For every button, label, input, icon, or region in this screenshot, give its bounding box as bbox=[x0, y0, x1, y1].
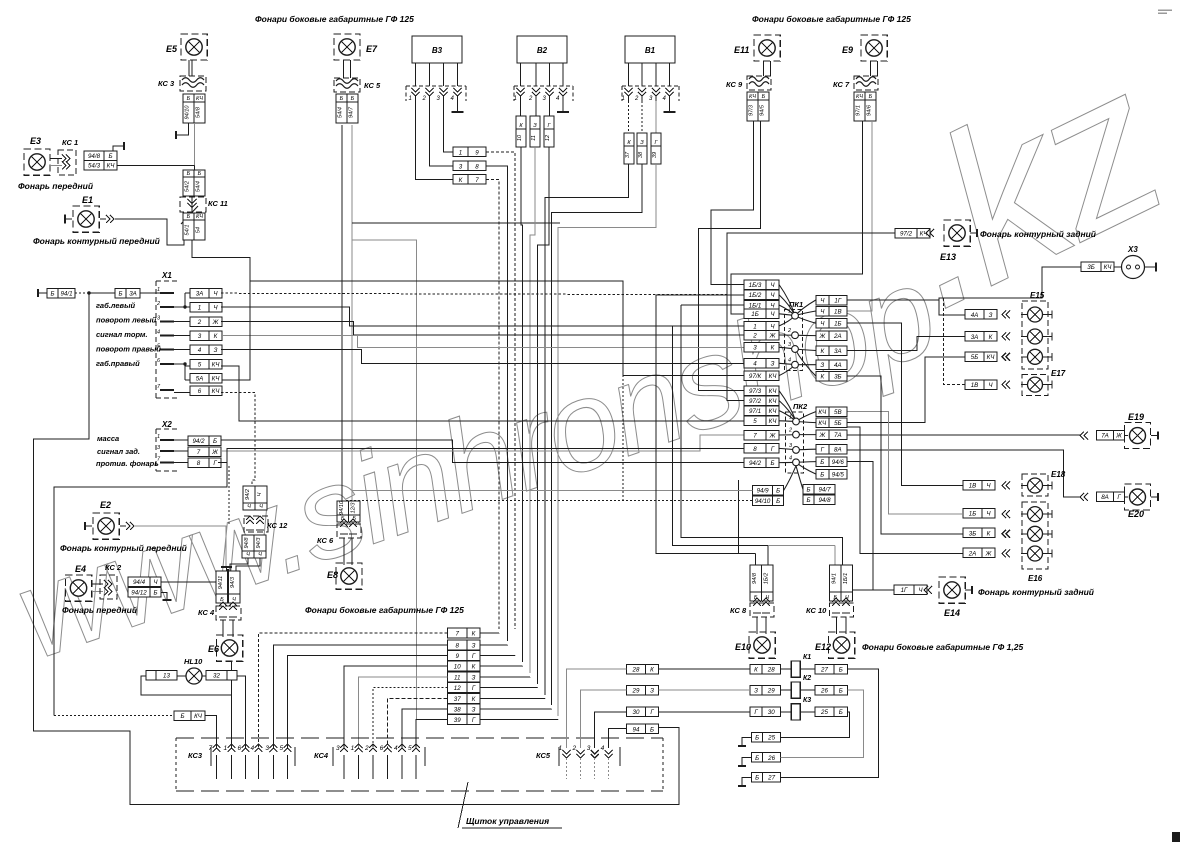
svg-text:КС 1: КС 1 bbox=[62, 138, 78, 147]
PS2 box 97/2 КЧ bbox=[744, 396, 779, 406]
svg-text:94/2: 94/2 bbox=[245, 488, 251, 500]
KC3 pin 3 bbox=[269, 744, 277, 752]
svg-text:К: К bbox=[214, 333, 218, 340]
wire 2А row feed bbox=[847, 427, 963, 554]
svg-text:Фонарь контурный задний: Фонарь контурный задний bbox=[978, 587, 1095, 597]
X1 pin7 link bbox=[174, 391, 190, 393]
svg-text:КЧ: КЧ bbox=[769, 373, 778, 380]
svg-text:E19: E19 bbox=[1128, 412, 1144, 422]
wire to X1 pin1 bbox=[140, 292, 160, 294]
B2 pin 1 bbox=[517, 88, 525, 96]
relay K1 bbox=[791, 661, 800, 677]
svg-text:94/3: 94/3 bbox=[230, 576, 236, 588]
box 28 К bbox=[627, 665, 659, 675]
PS1 box 2 Ж bbox=[744, 330, 779, 340]
svg-text:1Б: 1Б bbox=[751, 311, 758, 318]
terminal right of E13 bbox=[970, 232, 977, 234]
svg-text:1Г: 1Г bbox=[834, 297, 841, 304]
box 1 Ч bbox=[190, 303, 222, 313]
svg-text:Фонари боковые габаритные ГФ 1: Фонари боковые габаритные ГФ 1,25 bbox=[862, 642, 1023, 652]
svg-text:94/5: 94/5 bbox=[760, 104, 766, 116]
wire E14 feed from 94/6 bbox=[847, 462, 894, 590]
box Б 3А bbox=[115, 289, 140, 299]
connector KC 8 bbox=[750, 603, 774, 617]
wire stack 12 left to pin bbox=[373, 688, 448, 749]
wires row K1 bbox=[659, 668, 751, 670]
wire bus габ.левый row bbox=[221, 293, 744, 295]
wire 29 to KC5 pin2 bbox=[581, 690, 627, 748]
svg-text:К: К bbox=[771, 345, 775, 352]
svg-text:E2: E2 bbox=[100, 500, 111, 510]
box Б 25 bbox=[752, 733, 781, 743]
PS1 box 1Б/2 Ч bbox=[744, 290, 779, 300]
svg-text:Ч: Ч bbox=[258, 552, 262, 558]
corner mark bottom right bbox=[1172, 832, 1180, 842]
svg-text:32: 32 bbox=[213, 673, 220, 680]
wire E11 B to PS2 bbox=[699, 121, 761, 391]
svg-text:КЧ: КЧ bbox=[769, 398, 778, 405]
svg-text:39: 39 bbox=[652, 152, 658, 158]
svg-text:Б: Б bbox=[755, 755, 759, 762]
svg-text:1В: 1В bbox=[969, 483, 977, 490]
svg-text:КС 4: КС 4 bbox=[198, 608, 215, 617]
svg-text:3: 3 bbox=[459, 163, 463, 170]
KC5 pin 3 bbox=[591, 750, 599, 758]
svg-text:3: 3 bbox=[336, 745, 340, 752]
svg-text:E14: E14 bbox=[944, 608, 960, 618]
wires KC6 to E8 bbox=[343, 538, 345, 565]
svg-text:1Б: 1Б bbox=[969, 511, 976, 518]
B1 leads bbox=[628, 63, 630, 86]
svg-text:КЧ: КЧ bbox=[194, 713, 203, 720]
box 3Б К bbox=[963, 528, 995, 538]
block 94/10 12/3 (KC6) bbox=[337, 501, 349, 522]
svg-text:КС 2: КС 2 bbox=[105, 563, 122, 572]
svg-text:94/1: 94/1 bbox=[831, 573, 837, 584]
svg-text:4: 4 bbox=[198, 347, 202, 354]
svg-text:1Б/1: 1Б/1 bbox=[843, 573, 849, 584]
svg-text:Б: Б bbox=[108, 153, 112, 160]
svg-text:масса: масса bbox=[97, 434, 119, 443]
svg-text:3А: 3А bbox=[196, 291, 204, 298]
svg-text:8А: 8А bbox=[834, 447, 842, 454]
wires E3 to KC1 bbox=[50, 158, 62, 160]
arrows E20 bbox=[1080, 493, 1088, 501]
stack box 10 К bbox=[448, 661, 481, 671]
svg-text:Фонарь контурный передний: Фонарь контурный передний bbox=[60, 543, 188, 553]
PS2 right box Г 8А bbox=[816, 444, 847, 454]
block 97/3 94/5 bbox=[747, 92, 758, 121]
svg-text:З: З bbox=[650, 687, 654, 694]
KC3 pin 4 bbox=[255, 744, 263, 752]
svg-text:4: 4 bbox=[251, 745, 255, 752]
block 94/8 1Б/2 (KC8) bbox=[750, 565, 762, 601]
ground Б26 bbox=[742, 757, 752, 766]
svg-text:4А: 4А bbox=[834, 362, 842, 369]
KC5 pin 1 bbox=[563, 750, 571, 758]
stack box 37 К bbox=[448, 694, 481, 704]
svg-text:З: З bbox=[472, 707, 476, 714]
svg-text:2: 2 bbox=[422, 96, 427, 102]
wire E9 B bbox=[847, 121, 872, 311]
stack box 8 З bbox=[448, 640, 481, 650]
svg-text:38: 38 bbox=[454, 707, 461, 714]
svg-text:В2: В2 bbox=[537, 46, 548, 55]
svg-text:ПК2: ПК2 bbox=[793, 402, 808, 411]
svg-text:КС 3: КС 3 bbox=[158, 79, 175, 88]
connector KC 11 bbox=[180, 197, 206, 212]
svg-text:HL10: HL10 bbox=[184, 657, 203, 666]
lamp E14 symbol bbox=[939, 577, 965, 603]
box 94/10 Б bbox=[753, 496, 784, 506]
stack box 7 К bbox=[448, 628, 481, 638]
svg-text:Ж: Ж bbox=[211, 449, 218, 456]
connector X1 dashed box bbox=[156, 281, 178, 398]
svg-text:К: К bbox=[472, 696, 476, 703]
svg-text:Б: Б bbox=[839, 709, 843, 716]
svg-text:З: З bbox=[640, 140, 644, 146]
wire stack 8 right to bus bbox=[480, 644, 508, 646]
svg-text:сигнал зад.: сигнал зад. bbox=[97, 447, 140, 456]
svg-text:94/6: 94/6 bbox=[832, 459, 845, 466]
svg-text:94/1: 94/1 bbox=[60, 291, 72, 298]
svg-text:94/2: 94/2 bbox=[192, 438, 205, 445]
svg-text:КЧ: КЧ bbox=[856, 94, 863, 100]
svg-text:1: 1 bbox=[198, 305, 201, 312]
B3 pin 4 bbox=[454, 88, 462, 96]
wire stack 38 left to pin bbox=[402, 709, 448, 748]
svg-text:Б: Б bbox=[839, 667, 843, 674]
svg-text:5А: 5А bbox=[196, 376, 204, 383]
svg-text:Б: Б bbox=[806, 487, 810, 494]
wire to junction bbox=[75, 292, 89, 294]
svg-text:7А: 7А bbox=[1101, 433, 1109, 440]
svg-text:Ж: Ж bbox=[1115, 433, 1122, 440]
svg-text:E1: E1 bbox=[82, 195, 93, 205]
wire bus 5А row to KC11 bbox=[222, 288, 250, 380]
KC4 pin 6 bbox=[384, 744, 392, 752]
lamp E11 symbol bbox=[754, 35, 780, 61]
svg-text:Фонари боковые габаритные ГФ 1: Фонари боковые габаритные ГФ 125 bbox=[752, 14, 911, 24]
stack box 11 З bbox=[448, 672, 481, 682]
wire KC3 down bbox=[194, 123, 196, 170]
wire stack 7 left to pin bbox=[259, 633, 448, 748]
svg-text:11: 11 bbox=[531, 135, 537, 141]
svg-text:3: 3 bbox=[265, 745, 269, 752]
wire E9 A bbox=[731, 121, 863, 314]
svg-text:E7: E7 bbox=[366, 44, 378, 54]
lamp E5 symbol bbox=[181, 34, 207, 60]
wire 94/9 row left bbox=[352, 490, 753, 492]
wire B3 pin1 to box K-7 bbox=[416, 101, 454, 180]
svg-text:Б: Б bbox=[213, 438, 217, 445]
svg-text:2: 2 bbox=[197, 319, 202, 326]
lamp E18 bbox=[1028, 478, 1043, 493]
block 54/2 54/4 bbox=[183, 170, 194, 196]
KC10 left drop bbox=[834, 546, 836, 565]
terminal left of E1 bbox=[65, 218, 72, 220]
wire Б КЧ to KC3 pin7 bbox=[205, 716, 217, 749]
svg-text:2: 2 bbox=[787, 328, 791, 334]
wire tag37 to bus bbox=[545, 164, 629, 695]
svg-text:Б: Б bbox=[153, 590, 157, 597]
svg-text:4: 4 bbox=[394, 745, 398, 752]
B1 connector pins bracket bbox=[622, 86, 679, 101]
terminal right of X3 bbox=[1145, 266, 1157, 268]
B3 pin 3 bbox=[440, 88, 448, 96]
svg-text:1Б: 1Б bbox=[834, 321, 841, 328]
svg-text:2: 2 bbox=[788, 428, 792, 434]
svg-text:К3: К3 bbox=[803, 697, 811, 704]
box К 28 bbox=[750, 665, 781, 675]
svg-text:Ч: Ч bbox=[259, 504, 263, 510]
svg-text:94/9: 94/9 bbox=[757, 488, 770, 495]
svg-text:Б: Б bbox=[776, 488, 780, 495]
svg-text:Фонарь передний: Фонарь передний bbox=[62, 605, 138, 615]
B2 pin 2 bbox=[532, 88, 540, 96]
svg-text:Фонарь передний: Фонарь передний bbox=[18, 181, 94, 191]
box Б КЧ bbox=[174, 711, 205, 721]
svg-text:4: 4 bbox=[788, 358, 791, 364]
lamp E12 symbol bbox=[828, 632, 854, 658]
svg-text:54/4: 54/4 bbox=[196, 181, 202, 192]
PK2 node 1 bbox=[793, 418, 800, 425]
box 26 Б bbox=[815, 685, 848, 695]
block 94/10 54/8 bbox=[183, 94, 194, 123]
svg-text:Ч: Ч bbox=[246, 552, 250, 558]
wire tag12 down bbox=[538, 147, 550, 684]
vertical tag 12 Г bbox=[549, 101, 551, 116]
box 2 Ж bbox=[190, 317, 222, 327]
box 32 bbox=[206, 671, 237, 681]
block 54/1 54 bbox=[183, 213, 194, 240]
B2 pin 4 bbox=[559, 88, 567, 96]
svg-text:94/2: 94/2 bbox=[749, 460, 762, 467]
ground Б27 bbox=[742, 777, 752, 786]
svg-text:E18: E18 bbox=[1051, 470, 1066, 479]
svg-text:1Б/2: 1Б/2 bbox=[749, 292, 762, 299]
block 94/11 94/3 (KC4) bbox=[216, 571, 228, 603]
svg-text:Ч: Ч bbox=[257, 492, 263, 496]
svg-text:К: К bbox=[989, 334, 993, 341]
svg-text:26: 26 bbox=[767, 755, 775, 762]
svg-text:Б: Б bbox=[187, 96, 191, 102]
svg-text:К: К bbox=[472, 664, 476, 671]
terminal left of Б94/1 bbox=[38, 292, 47, 294]
svg-text:КЧ: КЧ bbox=[196, 96, 203, 102]
svg-text:1В: 1В bbox=[834, 308, 842, 315]
wires E9 down bbox=[870, 61, 872, 76]
dotted 8Г drop bbox=[228, 466, 230, 526]
svg-text:К2: К2 bbox=[803, 675, 811, 682]
svg-text:КС 5: КС 5 bbox=[364, 81, 381, 90]
lamp E16-1 bbox=[1028, 507, 1043, 522]
svg-text:3: 3 bbox=[198, 333, 202, 340]
relay K3 bbox=[791, 704, 800, 720]
svg-text:З: З bbox=[214, 347, 218, 354]
svg-text:E4: E4 bbox=[75, 564, 86, 574]
svg-text:КЧ: КЧ bbox=[212, 362, 221, 369]
box 3А К bbox=[965, 332, 997, 342]
svg-text:КС 9: КС 9 bbox=[726, 80, 743, 89]
connector KC5 bracket bbox=[559, 747, 620, 766]
svg-text:3Б: 3Б bbox=[834, 373, 841, 380]
B2 connector pins bracket bbox=[514, 86, 573, 101]
KC3 pin 5 bbox=[284, 744, 292, 752]
svg-text:З: З bbox=[472, 643, 476, 650]
svg-text:КЧ: КЧ bbox=[1104, 264, 1113, 271]
lamp E13 symbol bbox=[944, 220, 970, 246]
wire 8А row bbox=[847, 450, 1080, 497]
lamp E3 symbol bbox=[24, 149, 50, 175]
svg-text:1: 1 bbox=[514, 96, 517, 102]
lamp E7 symbol bbox=[334, 34, 360, 60]
svg-text:E10: E10 bbox=[735, 642, 751, 652]
stack box 39 Г bbox=[448, 715, 481, 725]
wire stack 9 left to pin bbox=[288, 656, 448, 749]
E15-3 leads and terminal bbox=[1043, 356, 1053, 358]
svg-text:4: 4 bbox=[601, 745, 605, 752]
wires KC10 to E12 bbox=[836, 617, 838, 634]
svg-text:94: 94 bbox=[633, 726, 640, 733]
svg-text:94/8: 94/8 bbox=[244, 537, 250, 549]
block 97/1 94/6 bbox=[854, 92, 865, 121]
X1 pin2 to boxes link bbox=[174, 306, 185, 308]
svg-text:94/10: 94/10 bbox=[755, 498, 771, 505]
stack box 38 З bbox=[448, 704, 481, 714]
svg-text:Б: Б bbox=[187, 214, 191, 220]
E16-2 leads bbox=[1043, 533, 1053, 535]
vertical tag 39 Г bbox=[655, 101, 657, 133]
B1 pin4 ground bbox=[669, 101, 671, 112]
svg-text:4А: 4А bbox=[971, 312, 979, 319]
box 3А Ч bbox=[190, 289, 222, 299]
leader line bbox=[458, 782, 468, 828]
connector KC 4 bbox=[216, 606, 241, 620]
B3 pin 2 bbox=[426, 88, 434, 96]
X1 pin6 link bbox=[174, 363, 185, 365]
svg-text:38: 38 bbox=[638, 151, 644, 158]
wire stack 39 left to pin bbox=[416, 720, 448, 749]
lamp E6 symbol bbox=[216, 635, 242, 661]
box 1В Ч (E17) bbox=[965, 380, 997, 390]
box 25 Б bbox=[815, 707, 848, 717]
svg-text:КЧ: КЧ bbox=[818, 409, 827, 416]
svg-text:9: 9 bbox=[475, 149, 479, 156]
KC3 pin 7 bbox=[213, 744, 221, 752]
wire PS1 1Г row to X3 junction bbox=[847, 299, 939, 301]
wire tag10 down bbox=[521, 147, 523, 662]
svg-text:1: 1 bbox=[409, 96, 412, 102]
dotted vertical 623 bbox=[622, 295, 624, 501]
X1 pin 5 bbox=[160, 348, 174, 350]
block 94/12 Б bbox=[128, 588, 161, 598]
lamp E15-3 bbox=[1028, 349, 1043, 364]
svg-text:2: 2 bbox=[572, 745, 577, 752]
wire 94/10 row left bbox=[346, 500, 753, 502]
svg-text:30: 30 bbox=[633, 709, 640, 716]
svg-text:1: 1 bbox=[788, 309, 791, 315]
KC3 pin 1 bbox=[228, 744, 236, 752]
connector KC 5 bbox=[334, 78, 360, 92]
branch E7 right long drop to KC4 pin5 bbox=[352, 240, 417, 720]
PS1 box 97/К КЧ bbox=[744, 371, 779, 381]
watermark www.sinhronshop.kz bbox=[0, 21, 1182, 687]
connector KC 10 bbox=[830, 603, 854, 617]
PK2 node4 drop curves bbox=[784, 466, 796, 491]
connector KC4 bracket bbox=[333, 747, 425, 766]
svg-text:3Б: 3Б bbox=[969, 530, 976, 537]
svg-text:3А: 3А bbox=[129, 291, 137, 298]
svg-text:1: 1 bbox=[351, 745, 355, 752]
svg-text:З: З bbox=[771, 361, 775, 368]
box Б 94/8 bbox=[803, 495, 835, 505]
PS1 box 1 Ч bbox=[744, 321, 779, 331]
wire box32 to KC3 pin6 bbox=[237, 676, 246, 748]
PS1 right box Ч 1В bbox=[816, 306, 847, 316]
lamp E17 dashed box bbox=[1022, 375, 1048, 396]
svg-text:7: 7 bbox=[753, 432, 757, 439]
svg-text:94/6: 94/6 bbox=[867, 104, 873, 116]
wire 1Б row feed bbox=[847, 412, 963, 514]
wires E7 down bbox=[343, 60, 345, 78]
terminal T above KC4 bbox=[221, 566, 232, 568]
svg-text:2А: 2А bbox=[833, 333, 842, 340]
svg-text:94/10: 94/10 bbox=[185, 105, 191, 120]
wire Б25 to 25 bbox=[781, 712, 850, 738]
svg-text:30: 30 bbox=[768, 709, 775, 716]
wire E2 to KC12 terminal bbox=[135, 526, 226, 566]
svg-text:КС 8: КС 8 bbox=[730, 606, 747, 615]
svg-text:4: 4 bbox=[789, 455, 792, 461]
svg-text:КС 7: КС 7 bbox=[833, 80, 850, 89]
svg-text:З: З bbox=[472, 675, 476, 682]
svg-text:КЧ: КЧ bbox=[749, 94, 756, 100]
svg-text:1Г: 1Г bbox=[901, 587, 908, 594]
arrows to E13 bbox=[926, 229, 934, 237]
KC5 pin 2 bbox=[577, 750, 585, 758]
svg-text:1: 1 bbox=[157, 434, 160, 440]
svg-text:2: 2 bbox=[634, 96, 639, 102]
X1 pin links bbox=[174, 306, 190, 308]
X1 pin 6 bbox=[160, 363, 174, 365]
connector KC3 bracket bbox=[211, 747, 295, 766]
svg-text:10: 10 bbox=[454, 664, 461, 671]
svg-text:Б: Б bbox=[187, 171, 191, 177]
svg-text:5В: 5В bbox=[834, 409, 842, 416]
svg-text:Б: Б bbox=[770, 460, 774, 467]
KC4 pin 3 bbox=[340, 744, 348, 752]
PS1 right box Ч 1Г bbox=[816, 295, 847, 305]
wire 94 right to ground loop bbox=[659, 727, 680, 729]
wire bus 1 row bbox=[221, 307, 744, 326]
svg-text:1: 1 bbox=[224, 745, 228, 752]
box 3 8 bbox=[453, 161, 486, 171]
wire bus 4 row bbox=[221, 350, 744, 364]
arrow on E1 wire bbox=[100, 218, 106, 220]
lamp E20 symbol bbox=[1125, 484, 1151, 510]
svg-text:Б: Б bbox=[198, 171, 202, 177]
svg-text:94/7: 94/7 bbox=[818, 487, 831, 494]
wire 5Б row bbox=[847, 357, 965, 423]
box 1 9 bbox=[453, 147, 486, 157]
svg-text:94/8: 94/8 bbox=[88, 153, 101, 160]
svg-text:Б: Б bbox=[820, 471, 824, 478]
wire bus 3 row bbox=[221, 336, 744, 348]
svg-text:Фонарь контурный задний: Фонарь контурный задний bbox=[980, 229, 1097, 239]
PK2 node 2 bbox=[793, 431, 800, 438]
terminal E20 bbox=[1151, 496, 1158, 498]
